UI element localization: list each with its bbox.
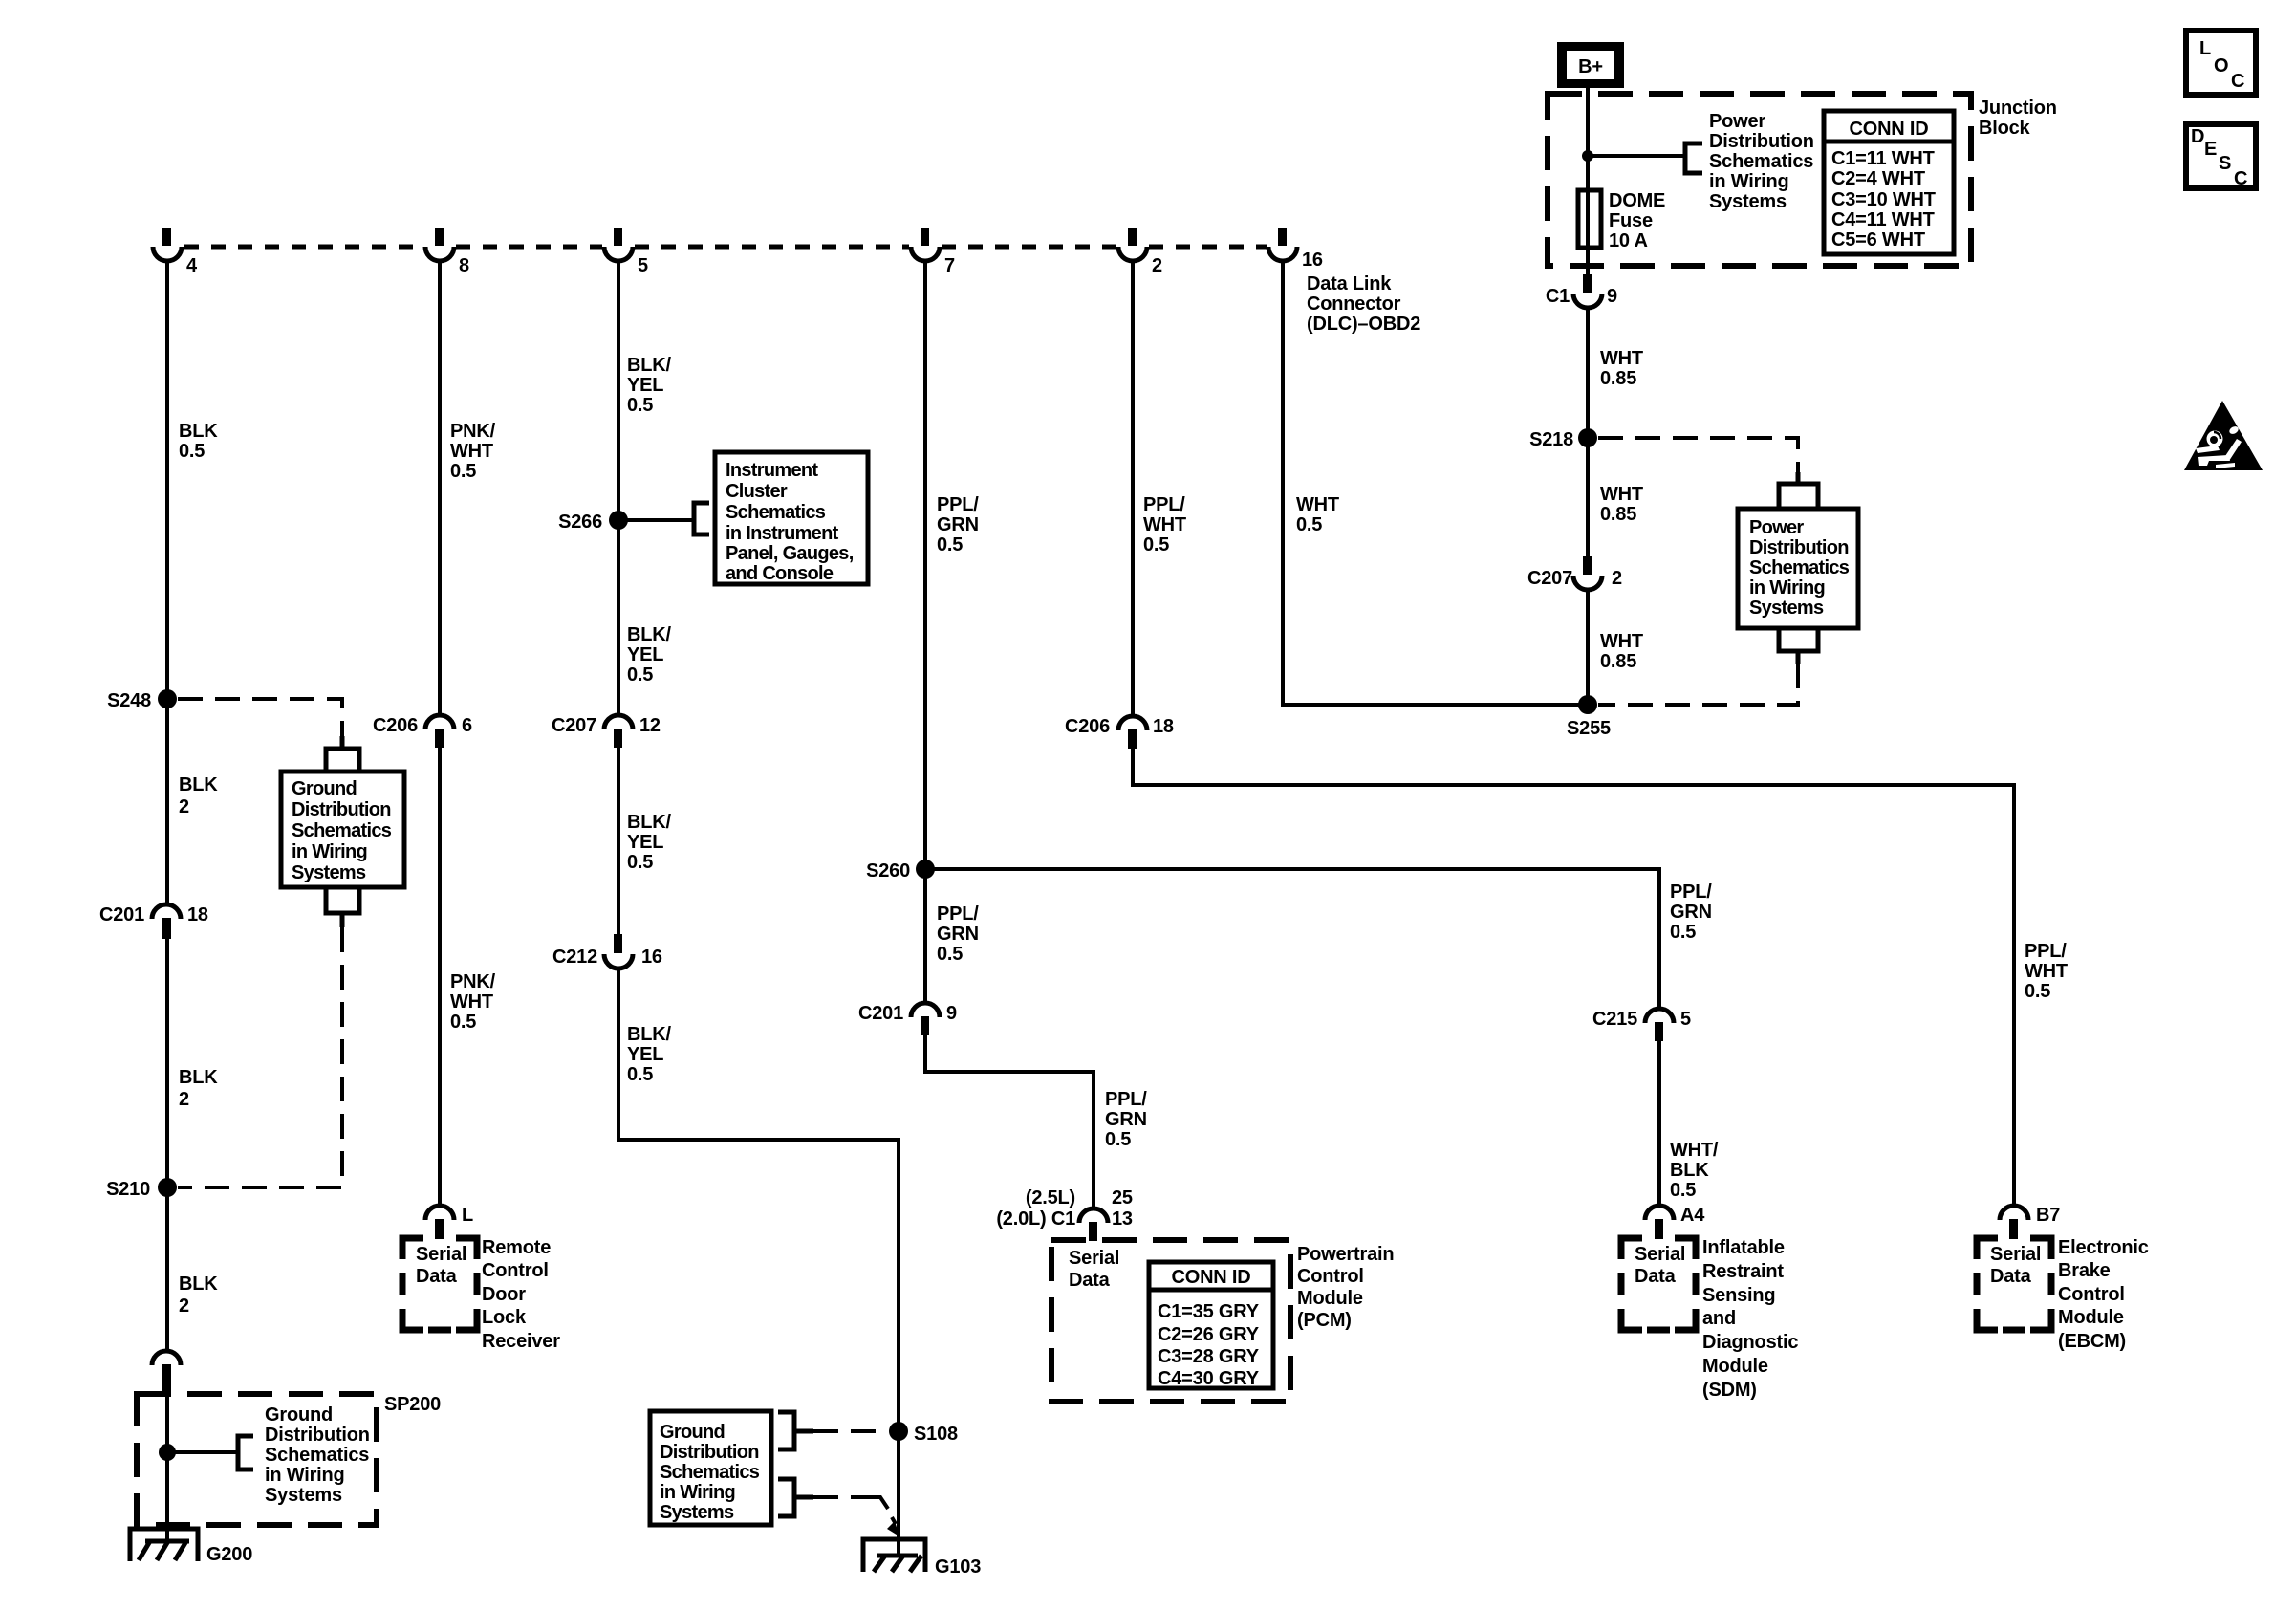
svg-text:Diagnostic: Diagnostic [1702, 1332, 1798, 1353]
svg-text:WHT: WHT [1600, 484, 1643, 505]
wire dashed bracket to S108 [813, 1429, 887, 1433]
wire column3 BLK/YEL lower to S108/G103 [618, 967, 899, 1557]
wire SP200 node to bracket [167, 1450, 238, 1454]
svg-text:YEL: YEL [627, 644, 663, 665]
splice S210 [106, 1178, 177, 1200]
svg-text:2: 2 [179, 1089, 189, 1110]
power feed B+ box [1557, 42, 1624, 88]
svg-text:G103: G103 [935, 1557, 981, 1578]
svg-text:Ground: Ground [292, 778, 357, 799]
label BLK/YEL 0.5 (1st) [627, 355, 672, 416]
label BLK 2 (middle) [179, 1067, 218, 1110]
svg-text:Control: Control [1297, 1266, 1364, 1287]
svg-text:25: 25 [1112, 1187, 1133, 1208]
svg-text:C4=11 WHT: C4=11 WHT [1831, 209, 1935, 230]
svg-text:PNK/: PNK/ [450, 421, 496, 442]
svg-text:S255: S255 [1567, 718, 1611, 739]
wire dashed bus segment 8-5 [456, 245, 602, 250]
svg-text:C206: C206 [373, 715, 418, 736]
svg-text:Data Link: Data Link [1307, 273, 1392, 294]
label WHT 0.5 [1296, 494, 1339, 535]
svg-text:13: 13 [1112, 1208, 1133, 1230]
svg-text:Data: Data [1990, 1266, 2032, 1287]
svg-text:Serial: Serial [1635, 1244, 1685, 1265]
wire dashed power distribution box to S255 [1598, 664, 1798, 705]
svg-text:2: 2 [179, 796, 189, 817]
box CONN ID (junction block) [1824, 111, 1954, 254]
svg-text:2: 2 [1152, 255, 1162, 276]
svg-text:(DLC)–OBD2: (DLC)–OBD2 [1307, 314, 1420, 335]
connector pin 4 [153, 228, 198, 276]
svg-text:C206: C206 [1065, 716, 1110, 737]
svg-text:C2=26 GRY: C2=26 GRY [1158, 1324, 1260, 1345]
wire dashed arrow to ground wire [813, 1497, 899, 1536]
svg-text:O: O [2214, 55, 2228, 76]
svg-text:E: E [2204, 139, 2217, 160]
label Power Distribution Schematics in Wiring Systems (junction block) [1709, 111, 1814, 212]
splice S255 [1567, 695, 1611, 739]
connector C212 pin 16 [552, 934, 662, 969]
label PPL/GRN 0.5 (below S260) [937, 903, 979, 965]
bracket under power distribution box [1779, 628, 1818, 664]
svg-text:Data: Data [416, 1266, 458, 1287]
box Serial Data (EBCM, dashed corners) [1977, 1238, 2051, 1330]
wire dashed bus segment 2-16 [1149, 245, 1267, 250]
svg-text:6: 6 [462, 715, 472, 736]
svg-text:Schematics: Schematics [1749, 557, 1850, 578]
svg-text:Door: Door [482, 1284, 526, 1305]
svg-text:(EBCM): (EBCM) [2058, 1331, 2126, 1352]
label PNK/WHT 0.5 (lower) [450, 971, 496, 1033]
svg-text:16: 16 [641, 947, 662, 968]
svg-text:C3=28 GRY: C3=28 GRY [1158, 1346, 1260, 1367]
svg-text:Junction: Junction [1979, 98, 2057, 119]
label PPL/GRN 0.5 (C215 branch) [1670, 882, 1712, 943]
svg-text:BLK/: BLK/ [627, 812, 672, 833]
node junction dot [1582, 150, 1593, 162]
svg-text:in Wiring: in Wiring [1709, 171, 1789, 192]
svg-text:Schematics: Schematics [265, 1445, 369, 1466]
svg-text:(2.5L): (2.5L) [1026, 1187, 1075, 1208]
svg-text:C1=11 WHT: C1=11 WHT [1831, 148, 1935, 169]
wire column1 BLK middle [165, 939, 169, 1353]
svg-text:PPL/: PPL/ [937, 903, 979, 925]
wire column2 PNK/WHT upper [438, 260, 442, 717]
connector C206 pin 18 [1065, 716, 1174, 749]
svg-text:0.85: 0.85 [1600, 651, 1636, 672]
svg-text:S266: S266 [558, 512, 602, 533]
splice S218 [1529, 428, 1597, 450]
svg-text:BLK/: BLK/ [627, 1024, 672, 1045]
svg-text:(PCM): (PCM) [1297, 1310, 1352, 1331]
label Electronic Brake Control Module (EBCM) [2058, 1237, 2149, 1352]
svg-text:Ground: Ground [265, 1404, 333, 1426]
svg-text:Brake: Brake [2058, 1260, 2111, 1281]
connector B7 (EBCM) [2000, 1205, 2060, 1239]
svg-text:in Wiring: in Wiring [660, 1482, 735, 1503]
wire column3 BLK/YEL middle [617, 746, 620, 935]
svg-text:Block: Block [1979, 118, 2031, 139]
svg-text:(SDM): (SDM) [1702, 1380, 1757, 1401]
svg-text:WHT: WHT [450, 441, 493, 462]
svg-text:8: 8 [459, 255, 469, 276]
icon DESC box [2186, 124, 2256, 189]
label WHT/BLK 0.5 [1670, 1140, 1719, 1201]
svg-text:18: 18 [187, 904, 208, 925]
box Ground Distribution Schematics (upper left) [281, 772, 404, 887]
svg-text:Serial: Serial [1069, 1248, 1119, 1269]
svg-text:Panel, Gauges,: Panel, Gauges, [726, 543, 854, 564]
connector C215 pin 5 [1592, 1009, 1691, 1041]
wire dashed bus segment 7-2 [942, 245, 1116, 250]
svg-text:5: 5 [638, 255, 648, 276]
svg-text:(2.0L) C1: (2.0L) C1 [996, 1208, 1075, 1230]
wire dashed bus segment 5-7 [635, 245, 909, 250]
connector C1 pin 9 (junction block) [1546, 274, 1617, 308]
svg-text:C5=6 WHT: C5=6 WHT [1831, 229, 1925, 250]
svg-text:0.5: 0.5 [450, 1012, 476, 1033]
wire C201-9 to PCM connector [925, 1034, 1094, 1208]
svg-text:Distribution: Distribution [660, 1442, 759, 1463]
box Junction Block (dashed) [1548, 94, 1971, 266]
wire WHT 0.85 lower [1586, 589, 1590, 705]
svg-text:C3=10 WHT: C3=10 WHT [1831, 189, 1936, 210]
svg-text:YEL: YEL [627, 375, 663, 396]
wire column2 PNK/WHT lower [438, 746, 442, 1207]
svg-text:Module: Module [2058, 1307, 2124, 1328]
bracket power distribution (junction block) [1685, 143, 1702, 173]
svg-text:5: 5 [1680, 1009, 1691, 1030]
svg-text:9: 9 [1607, 286, 1617, 307]
wire column6 WHT from DLC to S255 [1283, 260, 1588, 705]
svg-text:Powertrain: Powertrain [1297, 1244, 1394, 1265]
svg-text:Restraint: Restraint [1702, 1261, 1784, 1282]
splice SP200 box (dashed) [137, 1394, 441, 1525]
splice S248 [107, 689, 177, 711]
svg-text:B7: B7 [2036, 1205, 2060, 1226]
svg-text:Remote: Remote [482, 1237, 551, 1258]
svg-text:and: and [1702, 1308, 1736, 1329]
connector pin 7 [911, 228, 955, 276]
svg-text:S218: S218 [1529, 429, 1573, 450]
connector C206 pin 6 [373, 715, 472, 748]
connector L (remote receiver) [425, 1205, 473, 1239]
svg-text:in Wiring: in Wiring [1749, 577, 1825, 599]
box Serial Data (SDM, dashed corners) [1621, 1238, 1696, 1330]
wire dashed bracket to S210 [178, 927, 342, 1187]
svg-text:0.5: 0.5 [450, 461, 476, 482]
svg-text:Power: Power [1749, 517, 1804, 538]
bracket under ground distribution box (bottom) [326, 888, 359, 927]
connector unnamed above SP200 [152, 1351, 181, 1394]
svg-text:Control: Control [2058, 1284, 2125, 1305]
svg-text:0.5: 0.5 [627, 1064, 653, 1085]
svg-text:WHT: WHT [1143, 514, 1186, 535]
wire WHT 0.85 upper [1586, 307, 1590, 558]
svg-text:C4=30 GRY: C4=30 GRY [1158, 1368, 1260, 1389]
svg-text:GRN: GRN [1105, 1109, 1147, 1130]
svg-text:GRN: GRN [937, 514, 979, 535]
svg-text:2: 2 [1612, 568, 1622, 589]
connector C201 pin 18 [99, 904, 208, 939]
wire C215 to A4 [1657, 1039, 1661, 1207]
svg-text:Distribution: Distribution [292, 799, 391, 820]
connector C1 (PCM) pins 25/13 [996, 1187, 1133, 1241]
svg-text:BLK: BLK [179, 421, 218, 442]
svg-text:YEL: YEL [627, 1044, 663, 1065]
label Ground Distribution Schematics in Wiring Systems (SP200) [265, 1404, 370, 1506]
svg-text:Schematics: Schematics [726, 502, 826, 523]
bracket S108 (upper) [778, 1412, 813, 1449]
connector pin 5 [604, 228, 648, 276]
label WHT 0.85 (middle) [1600, 484, 1643, 525]
svg-text:S248: S248 [107, 690, 151, 711]
svg-text:SP200: SP200 [384, 1394, 441, 1415]
svg-text:0.5: 0.5 [179, 441, 205, 462]
svg-text:Systems: Systems [265, 1485, 342, 1506]
svg-text:BLK: BLK [179, 1067, 218, 1088]
svg-text:S210: S210 [106, 1179, 150, 1200]
svg-text:C2=4 WHT: C2=4 WHT [1831, 168, 1925, 189]
svg-text:Schematics: Schematics [292, 820, 392, 841]
splice S260 [866, 860, 935, 882]
wire column5 PPL/WHT upper [1131, 260, 1135, 718]
svg-text:WHT: WHT [450, 991, 493, 1012]
label WHT 0.85 (upper) [1600, 348, 1643, 389]
svg-text:C1=35 GRY: C1=35 GRY [1158, 1301, 1260, 1322]
svg-text:WHT: WHT [2025, 961, 2068, 982]
svg-text:PPL/: PPL/ [1143, 494, 1185, 515]
svg-text:S108: S108 [914, 1424, 958, 1445]
wire S260 branch to C215 [925, 869, 1659, 1011]
svg-text:PPL/: PPL/ [937, 494, 979, 515]
svg-text:C207: C207 [552, 715, 596, 736]
svg-text:Serial: Serial [416, 1244, 466, 1265]
svg-text:Control: Control [482, 1260, 549, 1281]
svg-text:GRN: GRN [937, 924, 979, 945]
svg-text:BLK/: BLK/ [627, 355, 672, 376]
box Ground Distribution Schematics (bottom middle) [650, 1411, 771, 1525]
bracket G103 (lower) [778, 1479, 813, 1516]
icon airbag warning triangle [2184, 401, 2263, 470]
connector C201 pin 9 [858, 1003, 957, 1035]
svg-text:0.5: 0.5 [627, 664, 653, 686]
svg-text:C: C [2234, 168, 2247, 189]
svg-text:BLK: BLK [179, 774, 218, 795]
svg-text:0.85: 0.85 [1600, 504, 1636, 525]
connector pin 16 (DLC) [1268, 228, 1323, 271]
svg-text:WHT: WHT [1600, 631, 1643, 652]
svg-text:Fuse: Fuse [1609, 210, 1653, 231]
svg-text:16: 16 [1302, 250, 1323, 271]
svg-text:PPL/: PPL/ [1670, 882, 1712, 903]
fuse DOME 10A [1578, 190, 1665, 251]
svg-text:Distribution: Distribution [1749, 537, 1849, 558]
svg-text:0.85: 0.85 [1600, 368, 1636, 389]
connector A4 (SDM) [1645, 1205, 1705, 1239]
svg-text:CONN ID: CONN ID [1849, 119, 1928, 140]
label Inflatable Restraint Sensing and Diagnostic Module (SDM) [1702, 1237, 1798, 1401]
label BLK 2 (upper) [179, 774, 218, 817]
label PPL/WHT 0.5 (upper) [1143, 494, 1186, 555]
svg-text:Systems: Systems [292, 862, 366, 883]
svg-text:Power: Power [1709, 111, 1765, 132]
svg-text:WHT: WHT [1296, 494, 1339, 515]
svg-text:and Console: and Console [726, 563, 834, 584]
svg-text:S260: S260 [866, 860, 910, 882]
svg-text:Distribution: Distribution [1709, 131, 1814, 152]
wire B+ down through junction block [1586, 88, 1590, 274]
svg-text:Module: Module [1702, 1356, 1768, 1377]
svg-text:L: L [462, 1205, 473, 1226]
svg-text:CONN ID: CONN ID [1171, 1267, 1250, 1288]
svg-text:BLK/: BLK/ [627, 624, 672, 645]
label BLK/YEL 0.5 (4th) [627, 1024, 672, 1085]
svg-text:12: 12 [639, 715, 661, 736]
svg-text:0.5: 0.5 [1296, 514, 1322, 535]
wire dashed bus segment 4-8 [184, 245, 423, 250]
svg-text:G200: G200 [206, 1544, 252, 1565]
svg-text:PPL/: PPL/ [1105, 1089, 1147, 1110]
node SP200 junction dot [159, 1444, 176, 1461]
svg-text:BLK: BLK [179, 1274, 218, 1295]
svg-text:C201: C201 [99, 904, 144, 925]
svg-text:C: C [2231, 71, 2244, 92]
svg-text:C215: C215 [1592, 1009, 1637, 1030]
svg-text:PNK/: PNK/ [450, 971, 496, 992]
svg-text:Serial: Serial [1990, 1244, 2041, 1265]
svg-text:0.5: 0.5 [1143, 534, 1169, 555]
wire column1 BLK upper [165, 260, 169, 906]
svg-text:Instrument: Instrument [726, 460, 818, 481]
svg-text:Electronic: Electronic [2058, 1237, 2149, 1258]
label PPL/WHT 0.5 (EBCM branch) [2025, 941, 2068, 1002]
box Serial Data (remote receiver, dashed corners) [402, 1238, 477, 1330]
label Data Link Connector (DLC)-OBD2 [1307, 273, 1420, 335]
svg-text:C201: C201 [858, 1003, 903, 1024]
svg-text:Distribution: Distribution [265, 1425, 370, 1446]
svg-text:0.5: 0.5 [627, 395, 653, 416]
svg-text:PPL/: PPL/ [2025, 941, 2067, 962]
svg-text:B+: B+ [1578, 56, 1603, 77]
svg-text:0.5: 0.5 [1670, 1180, 1696, 1201]
svg-text:Cluster: Cluster [726, 481, 788, 502]
wire dashed S218 to power distribution box [1598, 438, 1798, 472]
svg-text:WHT/: WHT/ [1670, 1140, 1719, 1161]
svg-text:0.5: 0.5 [2025, 981, 2050, 1002]
svg-text:7: 7 [944, 255, 955, 276]
connector C207 pin 12 [552, 715, 661, 748]
svg-text:in Instrument: in Instrument [726, 523, 839, 544]
label BLK/YEL 0.5 (3rd) [627, 812, 672, 873]
splice S108 [889, 1422, 958, 1445]
svg-text:YEL: YEL [627, 832, 663, 853]
svg-text:Data: Data [1635, 1266, 1677, 1287]
svg-text:Systems: Systems [1749, 598, 1824, 619]
bracket SP200 [238, 1436, 253, 1469]
label WHT 0.85 (lower) [1600, 631, 1643, 672]
svg-text:0.5: 0.5 [1670, 922, 1696, 943]
svg-text:Schematics: Schematics [660, 1462, 760, 1483]
svg-text:0.5: 0.5 [937, 944, 963, 965]
wire dashed S248 to ground distribution bracket [178, 699, 342, 736]
svg-text:DOME: DOME [1609, 190, 1665, 211]
label Powertrain Control Module (PCM) [1297, 1244, 1394, 1331]
svg-text:C207: C207 [1527, 568, 1572, 589]
svg-text:GRN: GRN [1670, 902, 1712, 923]
wire C206-18 long run to B7 (EBCM) [1133, 747, 2014, 1207]
svg-text:Inflatable: Inflatable [1702, 1237, 1785, 1258]
wire column1 inside SP200 to ground [165, 1388, 169, 1541]
svg-text:Lock: Lock [482, 1307, 527, 1328]
box CONN ID (PCM) [1149, 1262, 1273, 1389]
svg-text:S: S [2219, 153, 2231, 174]
svg-text:C1: C1 [1546, 286, 1570, 307]
svg-text:A4: A4 [1680, 1205, 1705, 1226]
svg-text:C212: C212 [552, 947, 597, 968]
svg-text:in Wiring: in Wiring [265, 1465, 345, 1486]
svg-text:WHT: WHT [1600, 348, 1643, 369]
box Power Distribution Schematics (solid right) [1738, 509, 1858, 628]
label PPL/GRN 0.5 (PCM branch) [1105, 1089, 1147, 1150]
svg-text:Schematics: Schematics [1709, 151, 1813, 172]
svg-text:10 A: 10 A [1609, 230, 1648, 251]
svg-text:Data: Data [1069, 1270, 1111, 1291]
label PPL/GRN 0.5 (upper) [937, 494, 979, 555]
ground G103 [863, 1539, 981, 1578]
svg-text:Systems: Systems [1709, 191, 1787, 212]
wire S266 to bracket [618, 518, 694, 522]
svg-text:Connector: Connector [1307, 294, 1401, 315]
connector C207 pin 2 [1527, 556, 1622, 590]
svg-text:Module: Module [1297, 1288, 1363, 1309]
bracket over ground distribution box (top) [326, 736, 359, 771]
svg-text:Ground: Ground [660, 1422, 725, 1443]
box Instrument Cluster Schematics [715, 452, 868, 584]
wire column4 PPL/GRN upper [923, 260, 927, 1005]
connector pin 8 [425, 228, 469, 276]
svg-text:BLK: BLK [1670, 1160, 1709, 1181]
ground G200 [130, 1529, 252, 1565]
svg-text:18: 18 [1153, 716, 1174, 737]
label BLK/YEL 0.5 (2nd) [627, 624, 672, 686]
bracket instrument cluster [694, 503, 709, 534]
svg-text:L: L [2199, 38, 2211, 59]
wire node to power distribution bracket [1588, 154, 1685, 158]
box PCM Serial Data (dashed) [1051, 1240, 1290, 1402]
icon LOC box [2186, 31, 2256, 95]
svg-text:in Wiring: in Wiring [292, 841, 367, 862]
wire column3 BLK/YEL upper [617, 260, 620, 717]
label BLK 2 (lower) [179, 1274, 218, 1317]
label PNK/WHT 0.5 (upper) [450, 421, 496, 482]
svg-text:9: 9 [946, 1003, 957, 1024]
svg-text:0.5: 0.5 [1105, 1129, 1131, 1150]
svg-text:Systems: Systems [660, 1502, 734, 1523]
connector pin 2 [1118, 228, 1162, 276]
svg-text:0.5: 0.5 [937, 534, 963, 555]
svg-text:2: 2 [179, 1295, 189, 1317]
svg-text:D: D [2191, 126, 2204, 147]
svg-text:Receiver: Receiver [482, 1331, 560, 1352]
label Junction Block [1979, 98, 2057, 139]
svg-text:Sensing: Sensing [1702, 1285, 1775, 1306]
label Remote Control Door Lock Receiver [482, 1237, 560, 1352]
svg-text:0.5: 0.5 [627, 852, 653, 873]
bracket over power distribution box [1779, 472, 1818, 507]
svg-text:4: 4 [186, 255, 198, 276]
label BLK 0.5 [179, 421, 218, 462]
